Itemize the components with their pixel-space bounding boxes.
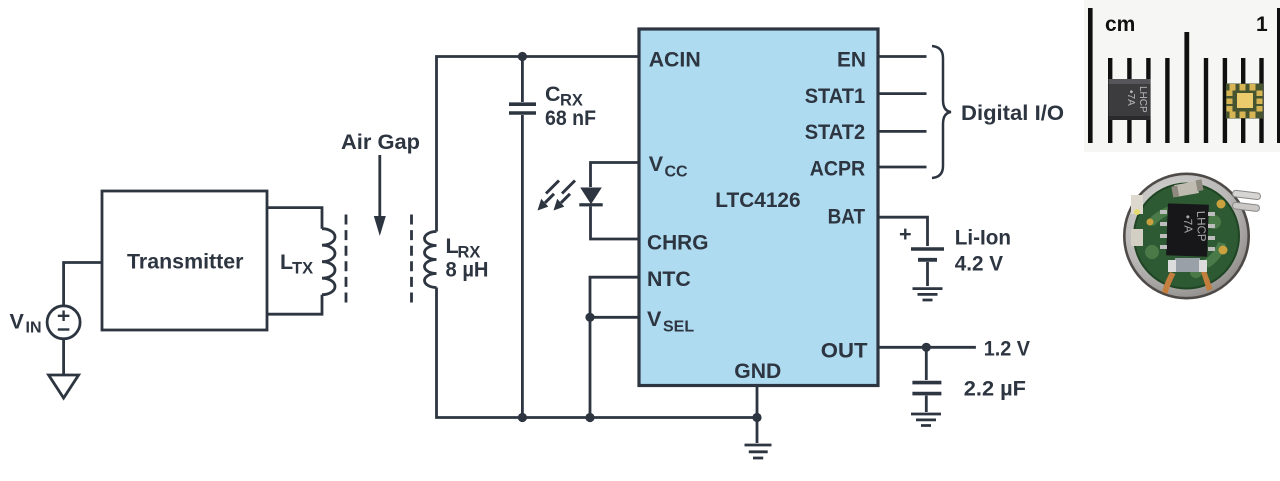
svg-text:BAT: BAT — [828, 204, 866, 228]
svg-text:LTC4126: LTC4126 — [715, 188, 800, 212]
photo: round PCB module — [1124, 174, 1261, 307]
photo: ruler with chips — [1084, 0, 1280, 152]
chip sample dark (LHCP 7A) — [1109, 79, 1151, 120]
svg-text:TX: TX — [292, 260, 313, 278]
left white components — [1131, 195, 1143, 214]
air gap arrow — [378, 155, 381, 218]
svg-text:ACPR: ACPR — [810, 157, 866, 181]
ruler tick 1cm — [1277, 8, 1280, 143]
svg-text:LHCP: LHCP — [1194, 211, 1207, 242]
ground (VIN, open triangle) — [49, 375, 79, 398]
brace digital IO — [932, 46, 951, 178]
svg-text:8 µH: 8 µH — [446, 258, 489, 282]
air gap dashed line left — [345, 215, 348, 309]
capacitor CRX bottom lead — [521, 115, 524, 418]
VIN minus symbol — [58, 328, 70, 330]
wire VSEL junction down to bottom rail — [589, 317, 592, 417]
svg-text:1.2 V: 1.2 V — [984, 336, 1031, 360]
LED D1 cathode bar — [579, 203, 602, 206]
wire VIN bottom — [62, 339, 65, 375]
copper lead left — [1162, 272, 1176, 294]
IC U1 LTC4126 body — [639, 29, 878, 386]
wire LTX top — [267, 208, 322, 229]
svg-text:1: 1 — [1256, 13, 1268, 36]
silver pins right — [1232, 190, 1261, 200]
svg-text:•7A: •7A — [1181, 215, 1194, 234]
svg-text:V: V — [649, 152, 664, 176]
center IC chip — [1166, 203, 1209, 256]
capacitor CRX top lead — [521, 57, 524, 103]
air gap dashed line right — [410, 215, 413, 309]
top capacitor component — [1174, 181, 1199, 197]
wire VCC to LED — [591, 163, 640, 188]
inductor LTX — [322, 229, 335, 295]
pin stub STAT1 — [878, 92, 927, 95]
ruler 5mm tick — [1184, 32, 1189, 143]
ground (battery) — [913, 289, 943, 300]
LED light arrow 1 — [538, 181, 560, 211]
wire VIN top to transmitter — [64, 263, 102, 306]
wire LRX bottom — [437, 288, 758, 418]
svg-text:•7A: •7A — [1125, 90, 1136, 106]
svg-text:cm: cm — [1105, 13, 1135, 36]
wire LTX bottom — [267, 295, 322, 315]
battery bottom lead — [926, 262, 929, 286]
module pcb disc — [1134, 184, 1239, 289]
bottom component — [1175, 258, 1200, 272]
svg-text:+: + — [899, 222, 912, 246]
svg-text:CHRG: CHRG — [647, 231, 709, 255]
LED light arrow 2 — [554, 181, 576, 211]
wire NTC — [590, 277, 639, 317]
svg-text:4.2 V: 4.2 V — [955, 251, 1004, 275]
svg-text:ACIN: ACIN — [649, 48, 701, 72]
svg-text:V: V — [10, 310, 25, 334]
wire OUT — [878, 346, 976, 349]
svg-text:V: V — [647, 307, 662, 331]
VIN plus symbol — [58, 311, 70, 322]
chip sample gold QFN — [1226, 84, 1263, 119]
svg-text:NTC: NTC — [647, 267, 691, 291]
junction node VSEL — [585, 313, 594, 322]
junction node rail CRX — [518, 413, 527, 422]
ruler tick 0cm — [1088, 8, 1093, 143]
svg-text:Transmitter: Transmitter — [127, 250, 244, 274]
chip leads — [1160, 210, 1215, 251]
svg-text:2.2 µF: 2.2 µF — [964, 376, 1026, 400]
svg-text:STAT1: STAT1 — [805, 84, 866, 108]
pin stub EN — [878, 55, 927, 58]
ground (GND pin) — [745, 445, 772, 458]
module rim shading — [1124, 236, 1249, 306]
capacitor CRX plates — [509, 104, 536, 113]
junction node ACIN/CRX — [518, 52, 527, 61]
svg-text:Li-Ion: Li-Ion — [955, 225, 1011, 249]
wire LRX top to ACIN — [437, 57, 640, 232]
svg-text:SEL: SEL — [663, 319, 694, 336]
capacitor COUT bottom lead — [925, 396, 928, 412]
svg-text:OUT: OUT — [821, 338, 868, 362]
svg-text:LHCP: LHCP — [1137, 86, 1148, 113]
module outer can — [1124, 174, 1249, 299]
wire GND pin down — [756, 385, 759, 443]
gold vias — [1217, 200, 1226, 209]
svg-text:GND: GND — [734, 359, 781, 383]
pin stub ACPR — [878, 166, 927, 169]
junction node OUT — [922, 343, 931, 352]
svg-text:68 nF: 68 nF — [545, 106, 596, 130]
capacitor COUT top lead — [925, 347, 928, 380]
battery BT1 plates — [911, 247, 944, 250]
svg-text:EN: EN — [837, 48, 866, 72]
LED D1 triangle — [580, 188, 602, 205]
ruler mm ticks — [1108, 58, 1112, 143]
junction node rail GND — [752, 413, 761, 422]
voltage source VIN — [47, 306, 80, 339]
junction node rail NTC — [585, 413, 594, 422]
transmitter block — [102, 191, 267, 330]
svg-text:CC: CC — [665, 164, 689, 181]
svg-text:IN: IN — [26, 320, 42, 337]
air gap arrowhead — [374, 216, 386, 236]
wire BAT to battery — [878, 217, 928, 246]
svg-text:Digital I/O: Digital I/O — [961, 101, 1064, 125]
ground (COUT) — [911, 414, 941, 426]
copper lead right — [1201, 272, 1213, 291]
inductor LRX — [425, 232, 437, 288]
pcb traces — [1145, 204, 1226, 278]
wire VSEL — [590, 316, 639, 319]
svg-text:STAT2: STAT2 — [805, 120, 866, 144]
svg-text:C: C — [545, 82, 561, 106]
pin stub STAT2 — [878, 130, 927, 133]
wire LED to CHRG — [591, 207, 640, 240]
svg-text:Air Gap: Air Gap — [341, 130, 420, 154]
capacitor COUT plates — [912, 383, 941, 394]
